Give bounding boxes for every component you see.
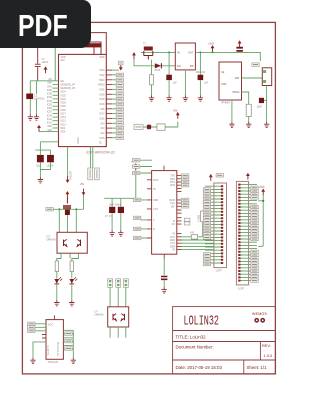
svg-text:IO33: IO33: [47, 100, 53, 103]
wires C11: [168, 52, 170, 95]
svg-text:10uF 100nF: 10uF 100nF: [109, 204, 122, 207]
resistor R? left: [55, 261, 58, 272]
svg-text:IO5: IO5: [101, 108, 106, 111]
ground left of IC: [30, 358, 35, 364]
wires 5V strip: [143, 122, 178, 127]
svg-text:BP: BP: [190, 64, 194, 68]
wire DTR to base: [53, 208, 83, 210]
net label boxes XI XO: [184, 218, 190, 221]
charger U? TP4054 box: [219, 62, 242, 100]
CH340 inner pin names right column: [169, 175, 175, 252]
wire to C1 cluster: [29, 81, 31, 94]
svg-text:Date: 2017-05-19 15:03: Date: 2017-05-19 15:03: [176, 365, 223, 370]
wire group3 bundle to header: [182, 237, 214, 250]
PDF badge: [0, 0, 91, 48]
capacitor C1 10uF (filled): [26, 94, 33, 100]
ground under connector: [264, 122, 269, 128]
wires below U1 to GND pads: [90, 147, 92, 168]
wire BP to ground: [184, 70, 186, 96]
svg-text:TP4054: TP4054: [221, 102, 230, 105]
U1 left pin net names: [47, 78, 53, 132]
svg-text:IO4: IO4: [101, 122, 106, 125]
wire to bottom cap: [163, 259, 165, 276]
svg-text:SENSOR_VN: SENSOR_VN: [61, 87, 76, 90]
wire top L1: [88, 33, 106, 55]
svg-text:74HC125: 74HC125: [48, 361, 59, 364]
svg-text:1.0.0: 1.0.0: [264, 353, 273, 358]
wires below transistor box: [57, 253, 79, 261]
svg-text:GND: GND: [99, 93, 105, 96]
svg-text:TXD0: TXD0: [98, 79, 105, 82]
svg-text:RI: RI: [153, 188, 156, 191]
net label boxes left of IC: [28, 322, 35, 325]
svg-text:C1060: C1060: [198, 214, 201, 222]
wire cap stub: [264, 99, 267, 101]
header JP1 body: [214, 183, 227, 268]
wires C13: [199, 52, 201, 95]
svg-text:OUT: OUT: [188, 51, 194, 55]
op-amp U1 body ESP32-WROOM-32: [59, 54, 107, 146]
svg-text:IO17: IO17: [99, 113, 105, 116]
connector pad J? a: [108, 279, 113, 288]
wires pads to UMH3N box: [110, 287, 126, 307]
wire connector to ground: [266, 86, 268, 123]
net label boxes mid-left: [133, 159, 140, 162]
svg-text:1/JP?: 1/JP?: [238, 288, 245, 291]
wire main 5V rail: [141, 51, 175, 53]
header JP1 row wires: [205, 186, 222, 263]
svg-text:IO18: IO18: [99, 103, 105, 106]
svg-text:IO12: IO12: [47, 118, 53, 121]
net label box above JP1: [216, 174, 223, 177]
ground under ME6211: [183, 96, 188, 102]
ground under PROG resistor: [246, 122, 251, 128]
svg-text:IO19: IO19: [99, 98, 105, 101]
wire EN rail with diode: [134, 59, 175, 66]
svg-text:EN: EN: [177, 64, 181, 68]
svg-text:+5V: +5V: [80, 183, 85, 186]
svg-text:IN: IN: [177, 51, 180, 55]
svg-text:IO12: IO12: [61, 120, 67, 123]
transistor Qb inside: [121, 314, 124, 321]
net label boxes USB D+ D-: [182, 198, 189, 201]
CH340 bottom pin: [163, 254, 165, 258]
wires to caps: [104, 170, 136, 207]
wire top vertical: [93, 47, 95, 54]
wire from U1 bottom row: [35, 142, 58, 150]
svg-text:GND: GND: [99, 56, 105, 59]
CH340 left pin ticks: [147, 180, 152, 238]
capacitor C11 1uF (filled): [166, 75, 172, 80]
svg-text:IO34: IO34: [47, 89, 53, 92]
CH340 top pin tick: [163, 166, 165, 171]
svg-text:10uF/16V: 10uF/16V: [34, 98, 45, 101]
svg-text:IO13: IO13: [61, 123, 67, 126]
svg-text:GND: GND: [221, 83, 227, 86]
junction node dots: [58, 208, 60, 210]
svg-text:DCD: DCD: [153, 179, 158, 182]
power arrow +3V3 right of JP2: [261, 189, 265, 196]
svg-text:TITLE: LoLin32: TITLE: LoLin32: [176, 334, 207, 339]
svg-text:IO14: IO14: [61, 116, 67, 119]
svg-text:UMH3N: UMH3N: [47, 239, 56, 242]
resistor R? PROG: [246, 104, 251, 116]
wires below UMH3N: [110, 327, 126, 338]
wires labels to IC: [35, 324, 46, 331]
net label boxes right of JP2: [251, 186, 258, 282]
ground under LED right: [69, 300, 74, 306]
net label box above arrow: [118, 61, 123, 65]
CH340 right bare pin ticks: [177, 188, 182, 224]
ground under CH340 cap: [162, 287, 167, 293]
wire EN row extension: [30, 80, 52, 82]
wire BAT pin to connector: [242, 77, 263, 79]
wire +3V3 feed bottom-left row: [39, 131, 53, 133]
wire bus above U1 from antenna area: [88, 33, 106, 55]
svg-text:IO32: IO32: [47, 96, 53, 99]
svg-text:IO25: IO25: [47, 103, 53, 106]
ground under TP4054: [229, 122, 234, 128]
connector pad J? b: [116, 279, 121, 288]
svg-text:RI: RI: [173, 249, 176, 252]
transistor Q? with bias resistors: [63, 198, 71, 216]
svg-text:DSR: DSR: [153, 199, 158, 202]
CH340 right pin ticks group2: [177, 200, 182, 206]
transistor Q-b inside box: [77, 239, 80, 246]
svg-text:IO16: IO16: [99, 117, 105, 120]
svg-text:1uF: 1uF: [173, 82, 178, 85]
IC top pin tick: [53, 315, 55, 319]
U1 right net label boxes: [116, 73, 123, 76]
wire IC left to ground: [33, 342, 46, 358]
svg-text:470: 470: [190, 232, 195, 235]
junction dot: [262, 200, 264, 202]
svg-text:+3V3: +3V3: [208, 43, 215, 46]
svg-text:SVP: SVP: [47, 82, 52, 85]
power arrow +5V: [176, 112, 180, 119]
wire cap to rail: [239, 51, 241, 54]
CH340 right pin ticks group1: [177, 176, 182, 186]
schematic frame border: [22, 22, 275, 374]
wire arrow stem: [83, 195, 85, 209]
svg-text:Sheet: 1/1: Sheet: 1/1: [247, 365, 268, 370]
ground under LED left: [54, 300, 59, 306]
wire PROG resistor: [242, 92, 249, 104]
svg-text:EP: EP: [100, 140, 103, 144]
svg-text:VCC: VCC: [48, 324, 53, 327]
header JP2 row wires: [239, 185, 257, 281]
capacitor C? under CH340: [161, 277, 167, 280]
wires caps to grounds: [112, 213, 121, 231]
component R/C vertical right of CH340: [201, 211, 205, 222]
svg-text:IO27: IO27: [61, 113, 67, 116]
wire cap to ground: [163, 280, 165, 288]
ground under C1 right: [34, 115, 39, 121]
svg-text:10uF: 10uF: [36, 165, 42, 168]
transistor T? P-MOSFET: [144, 47, 153, 60]
capacitor C? 100nF (filled): [47, 155, 54, 162]
power arrow VBUS left: [132, 52, 136, 59]
IC right pin wires: [63, 330, 73, 358]
svg-text:PROG: PROG: [232, 91, 239, 94]
wires crystal loop: [200, 222, 203, 237]
power arrow +3V3 at U1 left: [37, 125, 41, 132]
svg-text:1uF: 1uF: [204, 82, 209, 85]
thick antenna feed bar: [83, 43, 102, 47]
svg-text:LOLIN32: LOLIN32: [184, 314, 220, 330]
power arrow (down) to U1 pin1 row: [119, 64, 123, 71]
wires resistors to LEDs: [57, 272, 72, 279]
svg-text:DTR: DTR: [170, 184, 175, 187]
diode D? SS14: [155, 63, 162, 68]
power arrow above JP2: [246, 173, 250, 180]
LED D? right: [69, 277, 77, 284]
ferrite bead L?: [147, 125, 151, 130]
CH340 right pin ticks group3: [177, 234, 182, 250]
header JP2 body: [236, 181, 248, 285]
svg-text:+5V: +5V: [173, 109, 178, 113]
svg-text:IO22: IO22: [99, 74, 105, 77]
capacitor C? 10uF (filled): [37, 155, 44, 162]
wires caps to ground: [40, 150, 50, 177]
capacitor C? mid-a (filled): [109, 207, 115, 213]
wire below U1 left: [67, 147, 69, 177]
fuse F?: [157, 124, 165, 130]
svg-text:EN: EN: [61, 80, 65, 83]
svg-text:100nF: 100nF: [42, 61, 49, 64]
svg-text:CTS: CTS: [153, 208, 158, 211]
svg-text:IO35: IO35: [61, 94, 67, 97]
svg-text:IO14: IO14: [47, 114, 53, 117]
svg-text:R: R: [153, 228, 155, 231]
capacitor C? on top-left red wire: [35, 48, 41, 81]
wire MOSFET gate down: [151, 60, 153, 75]
wire TP4054 GND down: [231, 100, 233, 122]
net label box DTR: [46, 208, 53, 211]
svg-text:IO32: IO32: [61, 98, 67, 101]
svg-text:+3V3: +3V3: [259, 186, 266, 189]
svg-text:CE: CE: [221, 71, 225, 74]
power arrow +3V3 mid: [134, 163, 138, 170]
power arrow EN pullup: [44, 66, 48, 73]
U1 inner pin-name column left: [61, 56, 76, 134]
net label boxes TXD RXD RTS DTR: [182, 174, 189, 177]
power arrow +3V3 on OUT rail: [211, 45, 215, 52]
svg-text:Document Number:: Document Number:: [176, 345, 214, 350]
IC U? CH340 box: [152, 171, 177, 255]
svg-text:IO34: IO34: [61, 91, 67, 94]
WEMOS logo: [252, 312, 267, 323]
svg-text:WEMOS: WEMOS: [252, 312, 267, 316]
svg-text:A12: A12: [61, 59, 66, 62]
transistor pair U? UMH3N box: [57, 232, 87, 253]
capacitor C? mid-b (filled): [118, 207, 124, 213]
capacitor C? stacked plates: [236, 48, 243, 51]
U1 left pin rows: [53, 81, 59, 132]
svg-text:1/JP?: 1/JP?: [216, 270, 223, 273]
svg-text:IO26: IO26: [61, 109, 67, 112]
svg-text:A1 A2 Y1: A1 A2 Y1: [47, 344, 50, 355]
ground right of IC: [71, 358, 76, 364]
wire OUT rail: [195, 51, 236, 53]
vertical pad box GND2: [95, 168, 100, 180]
svg-text:SD3: SD3: [61, 131, 66, 134]
wire 3V3 rail to battery switch area: [236, 52, 260, 61]
title block outline: [173, 307, 276, 374]
wire +3V3 to JP2 pins: [258, 195, 263, 246]
stubs CH340 left pins: [141, 200, 147, 238]
wires LEDs to ground: [57, 284, 72, 301]
net label box BAT: [252, 63, 259, 66]
svg-text:GND/EP: GND/EP: [70, 170, 73, 180]
net stub wires mid-left: [140, 160, 152, 173]
svg-text:IO21: IO21: [99, 88, 105, 91]
svg-text:IO2: IO2: [101, 132, 106, 135]
power arrow above JP1: [209, 174, 213, 181]
svg-text:XO: XO: [172, 223, 176, 226]
transistor pair U? UMH3N box: [108, 307, 129, 327]
svg-text:GND2: GND2: [77, 137, 80, 144]
svg-text:UD-: UD-: [171, 205, 175, 208]
green vertical wire from badge to EN pin: [54, 48, 56, 81]
wire top L2: [88, 42, 101, 54]
svg-text:SS14: SS14: [155, 69, 162, 72]
svg-text:IO23: IO23: [99, 69, 105, 72]
svg-text:IO33: IO33: [61, 102, 67, 105]
svg-text:IO26: IO26: [47, 107, 53, 110]
power arrow +RTS at transistor top: [66, 191, 70, 198]
regulator U? ME6211 box: [175, 43, 195, 70]
ground under caps cluster: [38, 177, 43, 183]
wires into dual transistor box: [59, 209, 76, 232]
svg-text:IO25: IO25: [61, 105, 67, 108]
svg-text:RXD0: RXD0: [98, 84, 105, 87]
svg-text:SVN: SVN: [47, 85, 52, 88]
U1 right pin rows with ticks: [106, 70, 112, 138]
ground under C1 left: [28, 115, 33, 121]
wire C1 to ground: [30, 99, 36, 114]
header JP2 pad column: [238, 184, 240, 282]
svg-text:SENSOR_VP: SENSOR_VP: [61, 83, 76, 86]
junction dots on rails: [168, 51, 170, 53]
ground under C11: [166, 96, 171, 102]
wire resistor to ground: [248, 116, 250, 122]
LED D? left: [54, 277, 62, 284]
net label boxes left of JP1: [203, 188, 210, 266]
capacitor C? 10uF battery: [259, 98, 264, 103]
svg-text:10uF: 10uF: [257, 106, 263, 109]
svg-text:C? C?: C? C?: [105, 215, 112, 218]
supply arrow (down) below U1 left: [66, 176, 70, 183]
ground mid-a: [109, 230, 114, 236]
battery connector J?: [262, 68, 271, 86]
svg-text:SD2: SD2: [47, 125, 52, 128]
IC U? 74HC box: [46, 320, 63, 360]
resistor R? 470 inline: [191, 235, 197, 239]
ground mid-b: [118, 230, 123, 236]
transistor Q-a inside box: [64, 239, 67, 246]
svg-text:Y2 Y3 Y4 OE: Y2 Y3 Y4 OE: [57, 341, 60, 356]
IC left pin ticks: [42, 335, 46, 339]
svg-text:IO0: IO0: [101, 127, 106, 130]
svg-text:IO35: IO35: [47, 93, 53, 96]
svg-text:UMH3N: UMH3N: [95, 314, 104, 317]
svg-text:SD2: SD2: [61, 127, 66, 130]
resistor R? right: [70, 261, 73, 272]
svg-text:BAT: BAT: [235, 77, 240, 80]
connector pad J? c: [123, 279, 128, 288]
U1 right green stubs: [112, 70, 119, 138]
U1 inner pin-name column right: [98, 56, 105, 140]
svg-text:REV:: REV:: [262, 343, 271, 348]
svg-text:IO27: IO27: [47, 111, 53, 114]
power arrow above cap: [238, 40, 242, 47]
transistor Qa inside: [113, 314, 116, 321]
resistor R? pull: [150, 75, 154, 85]
ground under resistor: [149, 96, 154, 102]
wire resistor to ground: [151, 85, 153, 96]
net label box VUSB: [134, 124, 143, 129]
net label boxes CH340 left pins: [134, 198, 141, 201]
capacitor C13 1uF (filled): [198, 75, 204, 80]
wire second branch: [36, 81, 38, 94]
header JP1 pad column: [221, 185, 223, 264]
svg-text:IO15: IO15: [99, 137, 105, 140]
ground under C13: [198, 96, 203, 102]
svg-text:IO13: IO13: [47, 122, 53, 125]
net label boxes right of IC: [65, 332, 72, 335]
CH340 inner pin names left column: [153, 179, 158, 231]
vertical pad box GND1: [88, 168, 93, 180]
